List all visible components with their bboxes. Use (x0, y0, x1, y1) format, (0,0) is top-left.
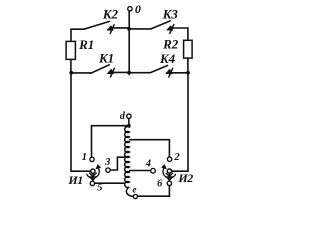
svg-text:K1: K1 (98, 51, 114, 66)
svg-text:K4: K4 (159, 51, 176, 66)
svg-text:K3: K3 (162, 7, 179, 22)
wire coil tap to terminal 2 (130, 140, 170, 157)
svg-text:5: 5 (97, 183, 102, 194)
svg-text:K2: K2 (102, 6, 119, 21)
switch K1 arrow contact (108, 68, 115, 77)
junction center/K1K4 row (127, 71, 131, 75)
switch K4 wire from center (129, 72, 150, 74)
svg-text:R2: R2 (162, 37, 179, 52)
svg-text:3: 3 (104, 157, 110, 168)
switch K2 arrow contact (107, 25, 114, 34)
junction below d (127, 124, 131, 128)
И1 rotation arc (87, 165, 101, 178)
svg-text:0: 0 (135, 2, 141, 16)
svg-text:2: 2 (173, 152, 180, 163)
wire K3 to right corner (172, 28, 188, 40)
resistor R1 (66, 41, 75, 59)
svg-text:4: 4 (145, 159, 151, 170)
terminal 3 circle (106, 168, 110, 172)
svg-text:R1: R1 (78, 37, 94, 52)
wire center rail (128, 11, 130, 74)
winding (autotransformer coil) (125, 126, 134, 196)
rotary switch И1 pivot (91, 169, 95, 173)
terminal d circle (127, 114, 131, 118)
И1 blade with arrows (90, 173, 97, 181)
wire left rail down to И1 (71, 73, 91, 172)
svg-text:e: e (133, 184, 137, 194)
switch K3 blade (151, 21, 170, 29)
wire to terminal 1 (92, 126, 129, 158)
И2 rotation arc (162, 165, 176, 178)
resistor R2 (184, 40, 193, 58)
wire d stub (128, 118, 130, 123)
wire coil tap to terminal 4 (130, 170, 151, 172)
junction center/K2K3 row (127, 27, 131, 31)
switch K4 arrow contact (166, 68, 173, 77)
rotary switch И2 pivot (167, 169, 171, 173)
wire right rail down to И2 (172, 73, 189, 171)
И2 blade with arrows (166, 173, 173, 181)
wire K4 to right junction (171, 72, 188, 74)
node 0 terminal circle (128, 7, 132, 11)
wire K2 to center (112, 27, 129, 29)
terminal 4 circle (151, 168, 156, 173)
svg-text:И1: И1 (67, 173, 82, 187)
switch K1 blade (91, 65, 110, 74)
wire R2 bottom (187, 58, 189, 73)
terminal 5 circle (90, 181, 94, 185)
terminal 6 circle (167, 181, 171, 185)
wire left top corner to R1 (71, 29, 84, 41)
svg-text:1: 1 (82, 152, 87, 163)
terminal 1 circle (90, 157, 94, 161)
svg-text:d: d (120, 111, 126, 122)
junction right/K4 row (186, 71, 190, 75)
wire coil top stem (128, 126, 131, 128)
switch K4 blade (150, 66, 167, 73)
wire R1 bottom (70, 59, 72, 72)
switch K3 arrow contact (167, 25, 174, 34)
switch K1 wire from left junction (71, 72, 90, 74)
junction left/K1 row (69, 71, 73, 75)
wire terminal 5 to coil (95, 182, 125, 184)
terminal 2 circle (167, 157, 171, 161)
switch K2 blade (84, 21, 110, 29)
wire terminal 3 to coil (110, 157, 125, 170)
svg-text:И2: И2 (177, 171, 193, 185)
svg-text:6: 6 (157, 179, 163, 190)
wire terminal 6 to e (138, 186, 170, 197)
terminal e circle (133, 194, 137, 198)
switch K3 wire from center (129, 28, 151, 30)
wire K1 to center (112, 71, 129, 73)
